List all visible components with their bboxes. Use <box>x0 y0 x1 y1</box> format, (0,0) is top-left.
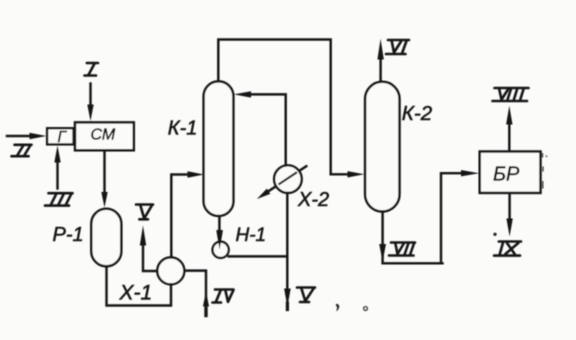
svg-text:БР: БР <box>493 163 520 185</box>
svg-text:СМ: СМ <box>91 127 116 144</box>
svg-text:Р-1: Р-1 <box>53 224 84 246</box>
svg-text:Х-1: Х-1 <box>119 282 153 305</box>
svg-text:К-2: К-2 <box>402 102 433 125</box>
svg-text:Х-2: Х-2 <box>297 189 329 211</box>
svg-text:Н-1: Н-1 <box>236 225 267 246</box>
svg-text:К-1: К-1 <box>168 117 198 139</box>
